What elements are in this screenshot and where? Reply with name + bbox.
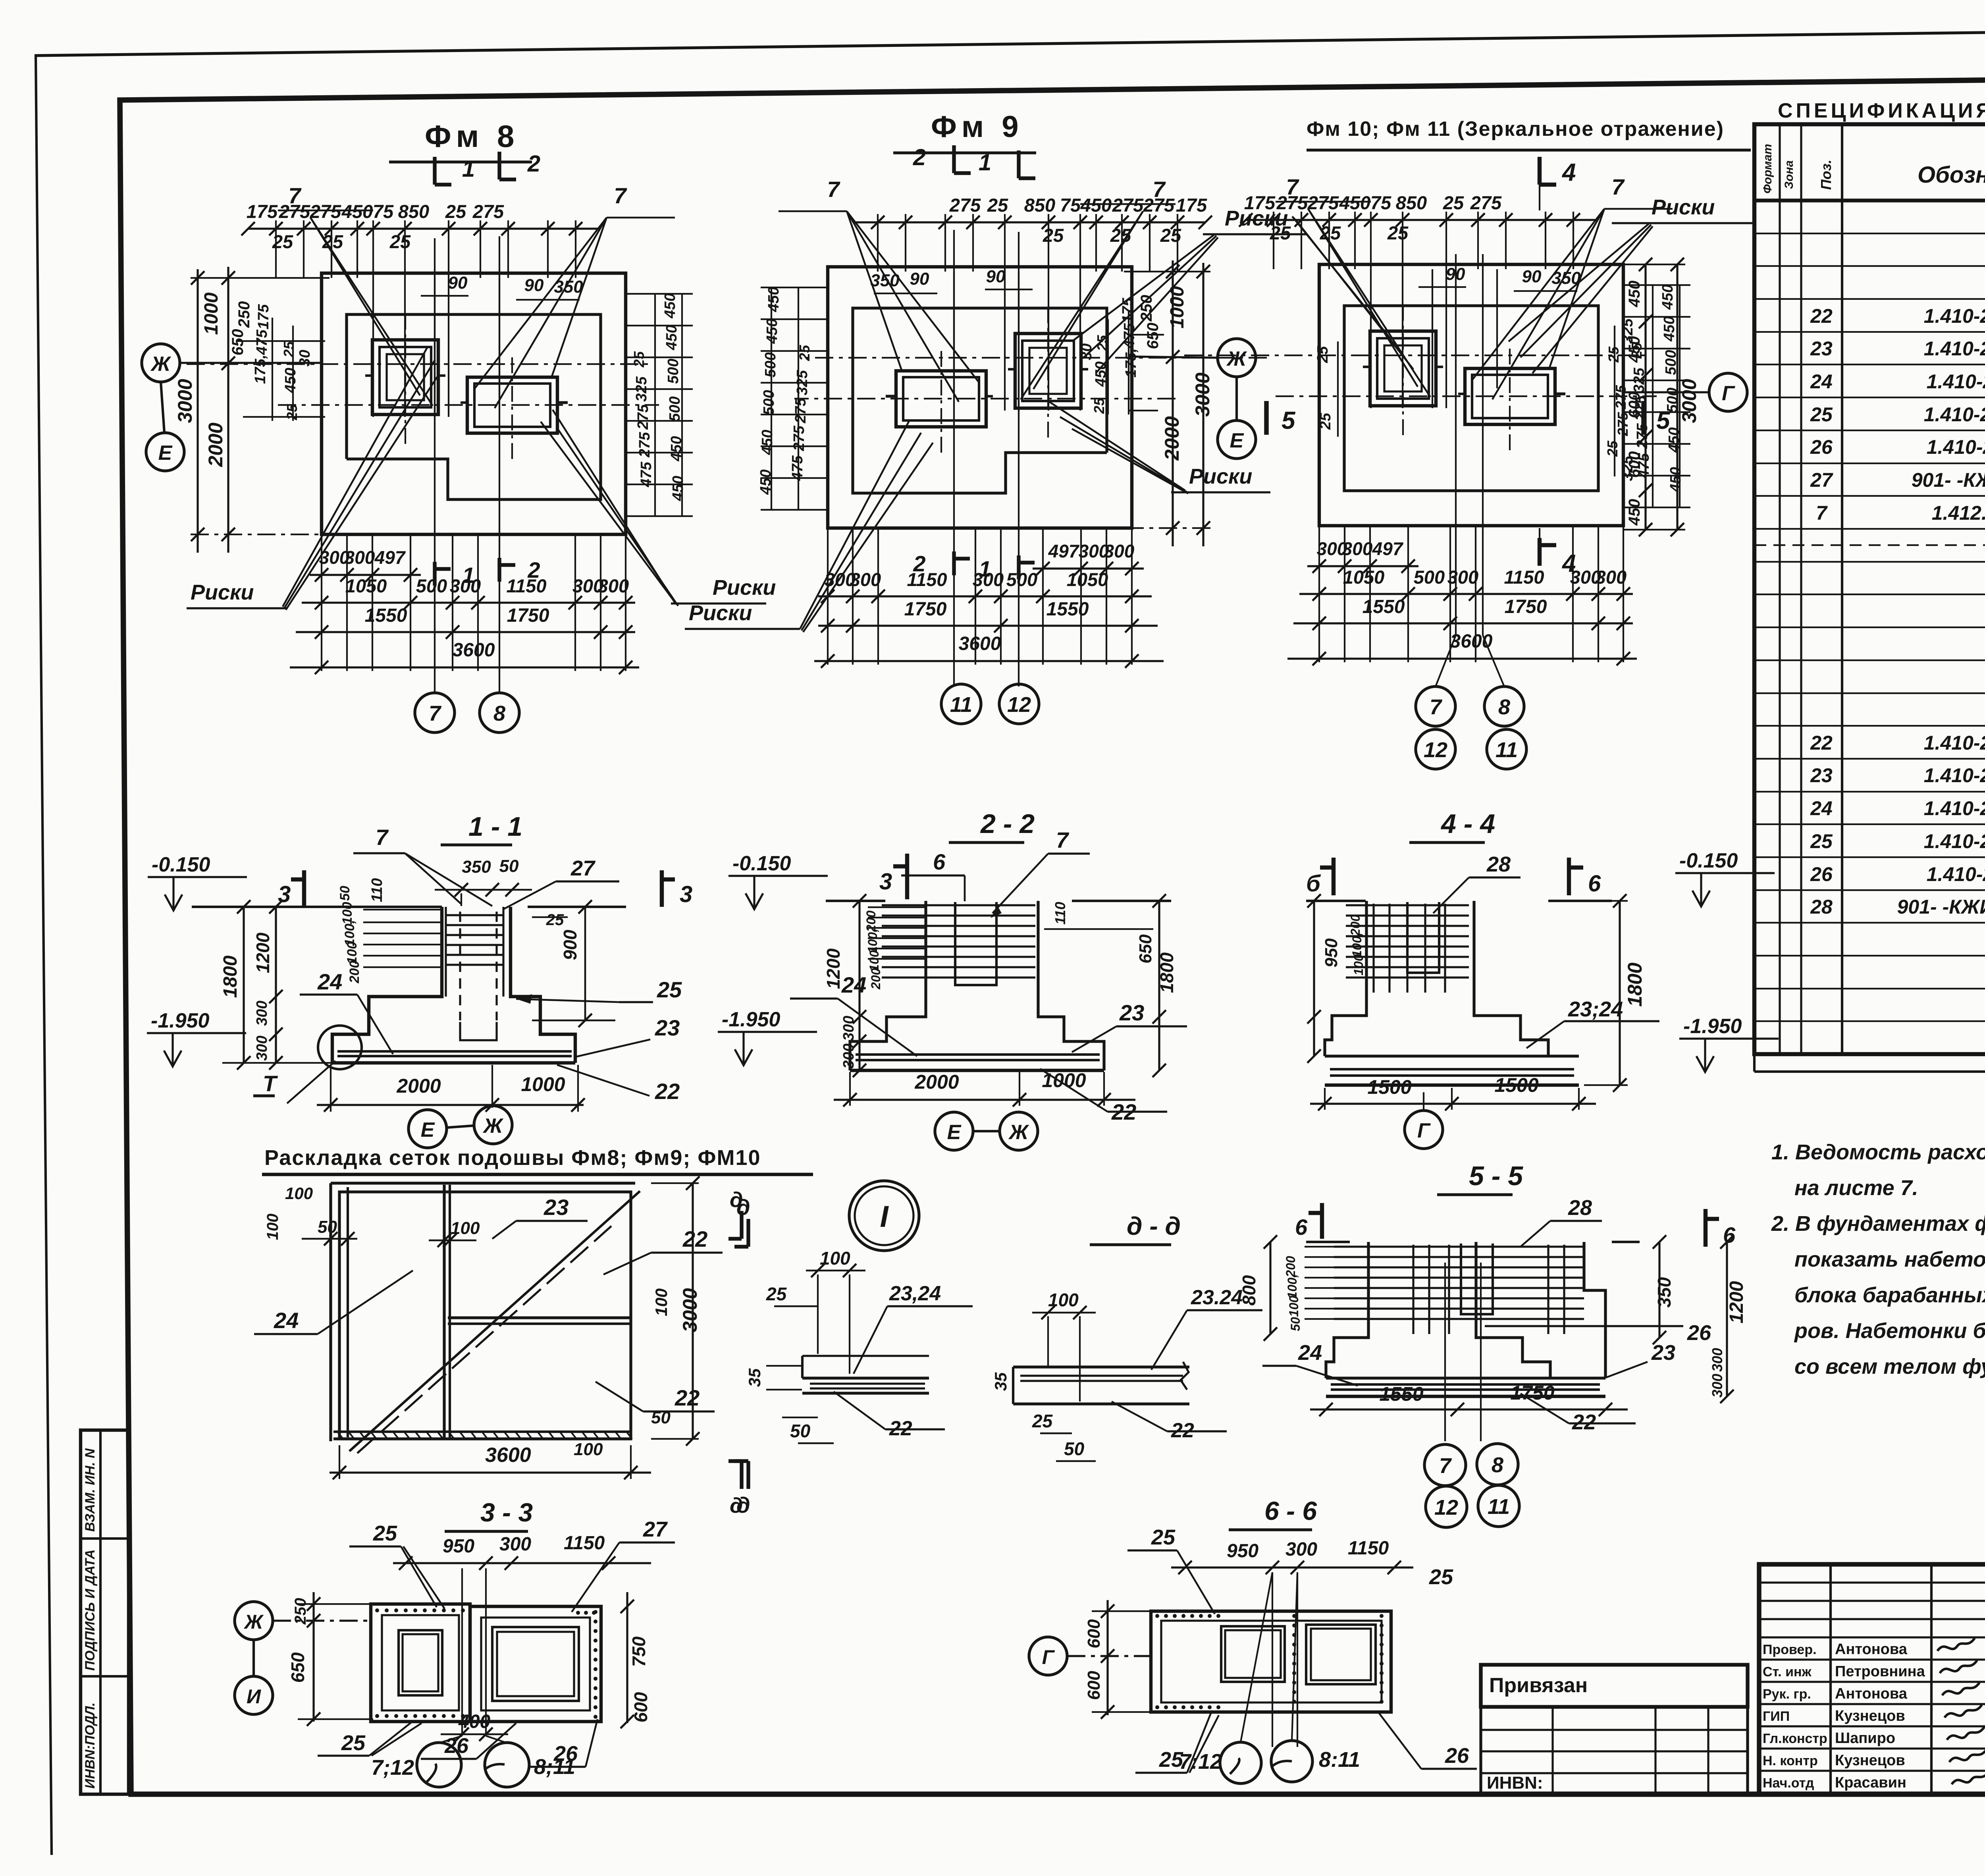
plan FM8 axis circle Ж [142, 344, 180, 382]
section 3-3 right dims [626, 1592, 628, 1723]
svg-text:850: 850 [1396, 192, 1427, 213]
spec table header row line [1754, 199, 1985, 202]
svg-text:50: 50 [499, 856, 519, 876]
svg-text:110: 110 [1052, 902, 1068, 924]
svg-text:200: 200 [869, 968, 883, 990]
svg-text:25: 25 [766, 1284, 787, 1304]
svg-text:показать набетонки под фундаме: показать набетонки под фундаментные балк… [1794, 1247, 1985, 1271]
svg-text:6: 6 [1295, 1215, 1308, 1240]
svg-text:Ст. инж: Ст. инж [1763, 1664, 1812, 1679]
svg-text:-0.150: -0.150 [152, 853, 210, 876]
svg-text:300: 300 [254, 1001, 270, 1026]
section 5-5 flag б right [1704, 1209, 1707, 1247]
section 2-2 top notch [955, 902, 996, 985]
plan FM9 bottom section flags [1017, 555, 1020, 579]
section 5-5 profile [1326, 1242, 1368, 1378]
svg-text:325: 325 [633, 376, 650, 401]
svg-text:Кузнецов: Кузнецов [1835, 1752, 1905, 1769]
svg-text:350: 350 [1654, 1277, 1675, 1307]
svg-text:497: 497 [1372, 538, 1404, 559]
section 5-5 cut verticals [1444, 1263, 1446, 1441]
svg-text:600: 600 [1084, 1619, 1104, 1648]
svg-text:Рук. гр.: Рук. гр. [1763, 1687, 1811, 1702]
section 3-3 axis circle И [235, 1676, 273, 1714]
svg-text:27: 27 [1810, 469, 1833, 491]
svg-text:35: 35 [991, 1372, 1010, 1391]
section 5-5 right step [1584, 1242, 1605, 1378]
svg-text:Шапиро: Шапиро [1835, 1730, 1895, 1747]
svg-text:Риски: Риски [689, 601, 752, 625]
svg-text:275: 275 [949, 195, 981, 216]
svg-text:4: 4 [1561, 550, 1576, 577]
svg-text:26: 26 [1810, 436, 1833, 458]
svg-text:1.410-2, Вып.1: 1.410-2, Вып.1 [1924, 764, 1985, 787]
section 5-5 numbered circle 12 [1426, 1486, 1467, 1527]
svg-text:со всем телом фундамента.: со всем телом фундамента. [1794, 1355, 1985, 1379]
detail I top line [802, 1355, 929, 1357]
svg-text:250: 250 [235, 301, 253, 328]
section 6-6 left dims [1106, 1600, 1108, 1715]
svg-text:450: 450 [1626, 336, 1643, 363]
svg-text:90: 90 [1522, 267, 1542, 286]
plan FM10 fixture centerlines [1402, 305, 1404, 436]
svg-text:1000: 1000 [201, 292, 222, 335]
svg-text:8: 8 [1498, 695, 1510, 719]
svg-text:Нач.отд: Нач.отд [1763, 1776, 1814, 1791]
svg-text:на листе 7.: на листе 7. [1794, 1176, 1918, 1200]
privyazan sub table [1481, 1707, 1748, 1795]
svg-text:1.410-2. Вып.1: 1.410-2. Вып.1 [1924, 337, 1985, 360]
svg-text:175: 175 [247, 201, 278, 222]
plan FM8 right small dim cluster [626, 293, 693, 295]
plan FM10 right big dim column [1644, 264, 1646, 530]
section 4-4 bottom dims [1310, 1103, 1596, 1105]
svg-text:24: 24 [317, 969, 342, 994]
plan FM8 cut line 2 [499, 236, 500, 693]
svg-text:-1.950: -1.950 [151, 1009, 210, 1032]
svg-text:1750: 1750 [1505, 596, 1547, 617]
svg-text:350: 350 [462, 857, 491, 877]
section 2-2 ground line [826, 900, 885, 902]
svg-text:650: 650 [287, 1652, 308, 1683]
svg-text:22: 22 [682, 1226, 707, 1251]
svg-text:275: 275 [1470, 192, 1502, 213]
svg-text:1000: 1000 [521, 1073, 565, 1095]
plan FM8 fixture centerlines [405, 314, 406, 445]
svg-text:3: 3 [879, 869, 892, 895]
svg-text:950: 950 [1227, 1541, 1258, 1562]
svg-text:1: 1 [979, 150, 991, 175]
svg-text:50: 50 [1064, 1438, 1085, 1459]
svg-text:850: 850 [1024, 195, 1055, 216]
spec table row lines [1754, 233, 1985, 234]
svg-text:1.412.1-4,060: 1.412.1-4,060 [1932, 502, 1985, 524]
svg-text:ИНВN:ПОДЛ.: ИНВN:ПОДЛ. [83, 1702, 98, 1789]
privyazan box [1481, 1665, 1748, 1707]
plan FM10 axis circle Г [1709, 373, 1747, 411]
plan FM9 axis connector [1235, 377, 1238, 420]
plan FM10 numbered circle 7 [1416, 686, 1455, 726]
svg-text:25: 25 [546, 911, 564, 929]
svg-text:-1.950: -1.950 [1683, 1015, 1742, 1038]
section Д-Д left riser [1012, 1367, 1014, 1404]
section 6-6 rebar dots [1155, 1614, 1159, 1618]
svg-text:Н. контр: Н. контр [1763, 1753, 1818, 1768]
svg-text:3000: 3000 [1191, 372, 1214, 416]
svg-text:25: 25 [1151, 1525, 1176, 1549]
svg-text:25: 25 [373, 1521, 397, 1545]
svg-text:3 - 3: 3 - 3 [480, 1498, 533, 1527]
mesh layout dim 3600 [330, 1471, 651, 1473]
svg-text:4: 4 [1561, 159, 1576, 186]
svg-text:12: 12 [1424, 738, 1447, 762]
svg-text:25: 25 [284, 404, 300, 420]
svg-text:2000: 2000 [396, 1075, 441, 1097]
section 4-4 axis circle Г [1405, 1111, 1443, 1149]
svg-text:450: 450 [662, 293, 678, 318]
svg-text:250: 250 [292, 1598, 309, 1625]
section 2-2 bottom dims [834, 1099, 1135, 1101]
svg-text:30: 30 [297, 350, 313, 366]
svg-text:7: 7 [1611, 174, 1625, 199]
plan FM8 bottom dim row 1050 500 300 1150 300 300 [302, 602, 635, 603]
plan FM10 numbered circle 8 [1484, 686, 1524, 726]
section 5-5 numbered circle 7 [1424, 1444, 1466, 1486]
section 2-2 axis circle Ж [1000, 1112, 1038, 1150]
svg-text:11: 11 [950, 693, 972, 717]
svg-text:7:12: 7:12 [1179, 1750, 1222, 1774]
svg-text:Привязан: Привязан [1489, 1674, 1588, 1697]
svg-text:300: 300 [598, 575, 629, 596]
plan FM10 section 4 flag top [1538, 157, 1542, 185]
section 1-1 pedestal inner lines [445, 907, 447, 997]
plan FM8 bottom dim row 1550 1750 [296, 631, 635, 633]
svg-text:475: 475 [638, 461, 655, 487]
svg-text:450: 450 [1661, 316, 1678, 341]
svg-text:25: 25 [631, 351, 647, 368]
section 1-1 profile [332, 907, 442, 1063]
svg-text:650: 650 [1144, 323, 1162, 349]
svg-text:1.410-2 Вып.1: 1.410-2 Вып.1 [1927, 863, 1985, 885]
svg-text:25: 25 [987, 195, 1008, 216]
svg-text:Ж: Ж [150, 353, 172, 376]
section 3-3 rebar dots [375, 1608, 379, 1612]
plan FM10 outer slab rect [1319, 264, 1623, 526]
plan FM8 diagonal leaders top [310, 218, 433, 406]
svg-text:100,: 100, [1285, 1274, 1299, 1299]
mesh layout bottom hatched band [333, 1431, 631, 1433]
svg-text:300: 300 [1709, 1374, 1725, 1398]
section 5-5 flag б left [1320, 1203, 1324, 1239]
svg-text:300: 300 [499, 1534, 531, 1555]
svg-text:3000: 3000 [1678, 379, 1700, 423]
svg-text:75: 75 [1060, 195, 1081, 216]
plan FM10 bottom dim row 1050 500 300 1150 300 300 [1299, 593, 1633, 595]
svg-text:1: 1 [462, 156, 475, 182]
plan FM9 horizontal centerline [802, 357, 1267, 359]
svg-text:7: 7 [376, 825, 389, 850]
section 6-6 center verticals [1272, 1572, 1273, 1747]
svg-text:Е: Е [158, 442, 173, 465]
svg-text:7: 7 [827, 177, 840, 202]
svg-text:500: 500 [1006, 569, 1037, 590]
svg-text:Ж: Ж [243, 1611, 264, 1633]
svg-text:175: 175 [1244, 192, 1276, 213]
svg-text:25: 25 [1605, 346, 1622, 363]
section 5-5 base slab [1326, 1377, 1605, 1379]
plan FM10 section 4 flag bottom [1539, 528, 1540, 564]
svg-text:27: 27 [643, 1517, 668, 1541]
svg-text:7: 7 [1056, 827, 1070, 852]
svg-text:д: д [730, 1188, 743, 1212]
svg-text:И: И [247, 1685, 261, 1708]
svg-text:50: 50 [790, 1421, 811, 1441]
spec table column lines [1779, 124, 1781, 1054]
svg-text:1550: 1550 [1379, 1383, 1423, 1405]
svg-text:25: 25 [389, 231, 411, 252]
svg-text:24: 24 [841, 972, 866, 997]
spec table bottom extra line [1754, 1070, 1985, 1073]
svg-text:7: 7 [429, 702, 442, 725]
section 2-2 flag 3 left [905, 854, 909, 899]
svg-text:Формат: Формат [1761, 144, 1774, 193]
svg-text:50: 50 [1288, 1317, 1303, 1331]
spec table dashed row line [1754, 544, 1985, 546]
svg-text:100: 100 [574, 1440, 603, 1459]
plan FM10 cut verticals to circles [1455, 254, 1457, 635]
svg-text:300: 300 [1079, 541, 1109, 561]
svg-text:35: 35 [745, 1368, 764, 1387]
svg-text:300: 300 [1285, 1539, 1317, 1560]
svg-text:Ж: Ж [1008, 1121, 1029, 1144]
section 5-5 bottom dims [1310, 1408, 1628, 1410]
plan FM8 bottom dim row 3600 [290, 666, 639, 668]
svg-text:1.410-2 Вып.1: 1.410-2 Вып.1 [1927, 436, 1985, 458]
plan FM9 inner step rect [853, 308, 1107, 493]
svg-text:1500: 1500 [1367, 1076, 1411, 1098]
svg-text:Ж: Ж [482, 1114, 504, 1138]
svg-text:950: 950 [443, 1536, 474, 1557]
svg-text:2: 2 [527, 557, 540, 582]
svg-text:1150: 1150 [506, 575, 546, 596]
plan FM8 bottom dim row 300 300 450 [310, 574, 421, 576]
svg-text:50: 50 [337, 886, 353, 901]
plan FM9 bottom extension lines [1131, 528, 1133, 665]
svg-text:23,24: 23,24 [889, 1282, 941, 1305]
svg-text:275: 275 [635, 404, 651, 430]
plan FM9 numbered circle 11 [941, 684, 981, 724]
svg-text:Г: Г [1417, 1119, 1431, 1142]
plan FM9 top dimension line [854, 221, 1205, 223]
plan FM8 bottom extension lines [321, 534, 322, 671]
svg-text:750: 750 [628, 1636, 649, 1667]
svg-text:90: 90 [448, 273, 468, 293]
svg-text:12: 12 [1007, 693, 1031, 717]
svg-text:8;11: 8;11 [534, 1755, 575, 1779]
svg-text:1550: 1550 [1046, 599, 1089, 620]
section 4-4 base slab [1325, 1055, 1579, 1057]
svg-text:Т: Т [263, 1071, 278, 1096]
svg-text:1750: 1750 [904, 599, 947, 620]
mesh layout square outer [339, 1192, 631, 1439]
svg-text:1800: 1800 [1624, 962, 1646, 1006]
svg-text:175: 175 [1176, 195, 1207, 216]
section 2-2 profile [850, 901, 926, 1070]
section 1-1 top pedestal dims [435, 889, 532, 891]
svg-text:90: 90 [524, 276, 544, 295]
plan FM8 square fixture [372, 340, 438, 415]
svg-text:д - д: д - д [1127, 1212, 1181, 1240]
plan FM9 left dim verticals [1202, 263, 1204, 546]
plan FM8 rect fixture [467, 377, 557, 433]
svg-text:Риски: Риски [713, 576, 776, 600]
svg-text:24: 24 [1298, 1341, 1322, 1365]
svg-text:1050: 1050 [1067, 569, 1108, 590]
svg-text:300: 300 [840, 1016, 857, 1041]
svg-text:22: 22 [1810, 732, 1833, 754]
plan FM8 outer slab rect [322, 273, 626, 534]
mesh layout square inner verticals [329, 1183, 332, 1441]
svg-text:110: 110 [369, 878, 385, 902]
svg-text:300: 300 [1342, 538, 1373, 559]
plan FM9 outer slab rect [828, 267, 1132, 528]
mesh layout square top double line [331, 1182, 635, 1184]
svg-text:1.410-2. Вып.1: 1.410-2. Вып.1 [1924, 305, 1985, 327]
svg-text:1: 1 [979, 556, 991, 581]
svg-text:23: 23 [1810, 337, 1833, 360]
plan FM8 inner step rect [347, 314, 601, 499]
svg-text:25: 25 [1032, 1411, 1053, 1431]
section 5-5 ground line [1306, 1241, 1350, 1243]
svg-text:Кузнецов: Кузнецов [1835, 1708, 1905, 1724]
svg-text:3000: 3000 [679, 1288, 701, 1332]
section 2-2 base slab [850, 1069, 1104, 1072]
svg-text:11: 11 [1495, 738, 1518, 762]
svg-text:200: 200 [347, 961, 362, 984]
svg-text:7: 7 [614, 183, 627, 208]
svg-text:23.24: 23.24 [1191, 1286, 1243, 1309]
plan FM10 bottom extension lines [1318, 526, 1320, 662]
svg-text:90: 90 [910, 269, 929, 289]
plan FM8 cut line 1 [434, 238, 436, 693]
svg-text:Риски: Риски [191, 580, 254, 604]
svg-text:д: д [730, 1494, 743, 1517]
svg-text:75: 75 [1370, 192, 1391, 213]
svg-text:Гл.констр: Гл.констр [1763, 1731, 1827, 1746]
svg-text:100,: 100, [1350, 933, 1364, 957]
section 1-1 dim 900 right [584, 907, 586, 1020]
section 4-4 ground line [1306, 900, 1366, 902]
svg-text:Г: Г [1042, 1646, 1055, 1668]
svg-text:23: 23 [655, 1015, 680, 1040]
plan FM10 riski top-left leaders [1292, 216, 1389, 337]
svg-text:8: 8 [493, 702, 505, 725]
svg-text:Провер.: Провер. [1763, 1642, 1817, 1657]
svg-text:1800: 1800 [220, 955, 241, 998]
svg-text:25: 25 [1429, 1565, 1453, 1589]
section 4-4 mesh grid [1346, 904, 1469, 906]
section Д-Д slab [1013, 1365, 1189, 1368]
svg-text:Г: Г [1722, 382, 1735, 405]
svg-text:1: 1 [462, 563, 474, 588]
svg-text:2000: 2000 [204, 422, 227, 467]
plan FM9 bottom dim row 3600 [814, 660, 1164, 662]
section 2-2 mesh lines [882, 904, 1035, 906]
svg-text:300: 300 [254, 1035, 270, 1060]
svg-text:Петровнина: Петровнина [1835, 1663, 1925, 1680]
svg-text:600: 600 [1626, 451, 1643, 478]
mesh layout section flags д [746, 1219, 750, 1247]
svg-text:300: 300 [1709, 1348, 1725, 1372]
spec table outer border [1754, 124, 1985, 1054]
svg-text:23;24: 23;24 [1568, 997, 1623, 1021]
svg-text:25: 25 [1604, 440, 1621, 457]
svg-text:1050: 1050 [1343, 567, 1385, 588]
svg-text:I: I [880, 1200, 889, 1234]
svg-text:175: 175 [255, 304, 272, 329]
svg-text:25: 25 [1091, 397, 1107, 414]
section 5-5 numbered circle 11 [1478, 1485, 1519, 1527]
plan FM9 right small dim cluster [761, 287, 828, 288]
svg-text:500: 500 [761, 390, 777, 415]
plan FM9 bottom dim row 1050 500 300 1150 300 300 [818, 595, 1152, 597]
svg-text:11: 11 [1488, 1495, 1510, 1519]
svg-text:475: 475 [254, 329, 270, 355]
svg-text:2: 2 [913, 551, 925, 576]
svg-text:25: 25 [281, 341, 297, 358]
plan FM8 top dimension line [248, 228, 599, 229]
plan FM8 bottom section flags [433, 562, 436, 586]
svg-text:Красавин: Красавин [1835, 1774, 1906, 1791]
svg-text:1550: 1550 [1363, 596, 1405, 617]
svg-text:900: 900 [560, 929, 580, 960]
section 1-1 ground line [192, 906, 442, 908]
svg-text:ИНВN:: ИНВN: [1487, 1773, 1543, 1793]
title block thin top rows [1759, 1581, 1985, 1583]
svg-text:блока барабанных сеток или бло: блока барабанных сеток или блока микрофи… [1794, 1283, 1985, 1307]
section 4-4 right dim 1800 [1619, 901, 1621, 1085]
svg-text:1750: 1750 [507, 605, 549, 626]
svg-text:100: 100 [285, 1184, 313, 1203]
svg-text:300: 300 [1447, 567, 1478, 588]
svg-text:23: 23 [1651, 1341, 1675, 1365]
section 2-2 axis circle Е [935, 1112, 973, 1150]
section 5-5 mesh grid [1334, 1246, 1584, 1247]
plan FM10 bottom dim row 3600 [1287, 657, 1637, 659]
svg-text:26: 26 [1445, 1744, 1469, 1768]
plan FM10 horizontal centerline [1184, 355, 1649, 356]
section 5-5 numbered circle 8 [1477, 1444, 1518, 1485]
svg-text:1200: 1200 [823, 948, 844, 989]
svg-text:650: 650 [229, 329, 247, 356]
svg-text:Е: Е [421, 1118, 435, 1141]
svg-text:275: 275 [472, 201, 504, 222]
svg-text:25: 25 [1387, 222, 1409, 243]
svg-text:5: 5 [1282, 407, 1296, 434]
svg-text:Антонова: Антонова [1835, 1685, 1908, 1702]
plan FM9 numbered circle 12 [999, 684, 1039, 724]
svg-text:1200: 1200 [1726, 1281, 1747, 1323]
svg-text:100: 100 [1287, 1296, 1301, 1317]
svg-text:25: 25 [1810, 403, 1833, 426]
svg-text:600: 600 [630, 1692, 651, 1722]
section 5-5 notch [1461, 1244, 1493, 1314]
plan FM8 numbered circle 7 [415, 693, 455, 733]
svg-text:Раскладка сеток подошвы Фм8: Раскладка сеток подошвы Фм8; Фм9; ФМ10 [264, 1146, 761, 1170]
svg-text:1000: 1000 [1167, 286, 1188, 328]
svg-text:450: 450 [670, 476, 686, 501]
svg-text:Е: Е [1230, 429, 1244, 452]
